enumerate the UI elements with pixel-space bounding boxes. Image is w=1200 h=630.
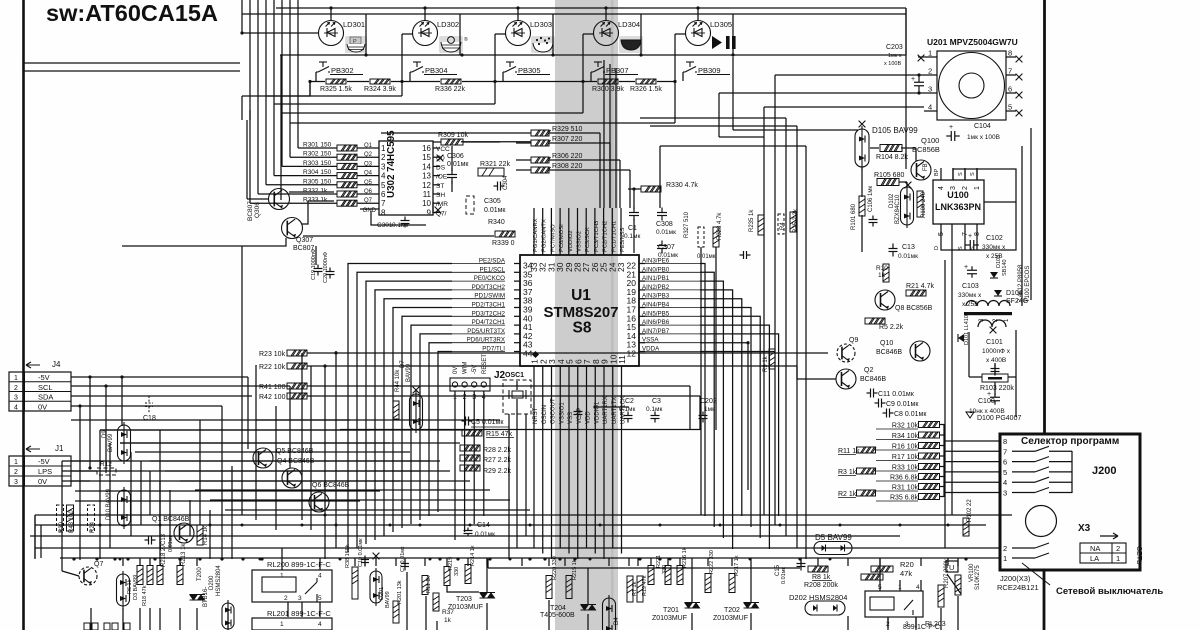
- svg-text:BAV99: BAV99: [385, 591, 391, 608]
- LED LD305: [686, 21, 711, 46]
- resistor R329 510: [531, 130, 551, 136]
- resistor R218 27: [157, 566, 163, 585]
- svg-text:C101: C101: [986, 339, 1003, 346]
- svg-text:0.01мк: 0.01мк: [697, 254, 716, 260]
- left lower mesh verticals: [99, 430, 101, 559]
- svg-text:R27 2.2k: R27 2.2k: [483, 457, 512, 464]
- wire J2 pins down: [454, 391, 456, 540]
- connector J2: [450, 378, 490, 391]
- wire center verticals below U1: [533, 430, 535, 548]
- capacitor C20 1000pF: [326, 268, 335, 279]
- svg-text:3: 3: [950, 186, 957, 190]
- svg-text:6: 6: [381, 190, 386, 199]
- svg-text:Q6: Q6: [364, 189, 373, 195]
- svg-text:330мк х: 330мк х: [958, 292, 982, 299]
- resistor R324: [370, 79, 390, 84]
- svg-text:+: +: [949, 124, 953, 131]
- svg-text:5: 5: [1003, 468, 1007, 477]
- svg-text:899-1C-F-C: 899-1C-F-C: [903, 624, 940, 630]
- svg-text:PB309: PB309: [698, 66, 721, 75]
- svg-text:R308 220: R308 220: [552, 163, 582, 170]
- svg-text:1k: 1k: [878, 272, 886, 279]
- resistor R336: [441, 79, 461, 84]
- resistor R300: [598, 79, 618, 84]
- NA LA table: [1080, 543, 1126, 563]
- svg-text:0.1мк: 0.1мк: [646, 406, 663, 413]
- svg-text:C10 0.01мк: C10 0.01мк: [358, 538, 364, 567]
- svg-text:R330 4.7k: R330 4.7k: [666, 182, 698, 189]
- svg-text:R100 240: R100 240: [921, 191, 927, 218]
- svg-text:R18 47k: R18 47k: [142, 585, 148, 606]
- resistor R307 220: [531, 140, 551, 146]
- resistor R37 1k: [433, 593, 439, 611]
- bus left vertical wires: [34, 515, 36, 559]
- svg-text:2: 2: [1116, 544, 1120, 553]
- svg-text:1: 1: [280, 573, 284, 580]
- wire bottom edge drops left: [90, 608, 92, 630]
- svg-text:R29 2.2k: R29 2.2k: [483, 468, 512, 475]
- svg-text:HSMS2804: HSMS2804: [216, 565, 222, 596]
- transformer T100 primary: [966, 301, 1010, 307]
- resistor R325: [326, 79, 346, 84]
- push button PB302: [316, 62, 330, 72]
- wire LD301 anode: [242, 32, 319, 34]
- resistor R10 1k: [883, 264, 889, 282]
- svg-text:Q2: Q2: [364, 152, 373, 158]
- resistor R28: [460, 445, 480, 451]
- resistor R105 680: [877, 179, 899, 186]
- bus top right horizontals: [775, 74, 924, 76]
- capacitor C8: [883, 409, 894, 418]
- svg-text:R208 200k: R208 200k: [804, 582, 838, 589]
- right sheet border line: [1043, 0, 1046, 434]
- svg-text:0.01мк: 0.01мк: [484, 207, 506, 214]
- svg-text:4: 4: [928, 103, 932, 112]
- svg-text:C305: C305: [484, 198, 501, 205]
- resistor R330 4.7k: [641, 186, 661, 192]
- capacitor C10: [361, 556, 369, 567]
- resistor R213 1k: [177, 566, 183, 585]
- wire U1 right pin fan: [700, 264, 705, 517]
- svg-text:Z0103MUF: Z0103MUF: [448, 604, 483, 611]
- IC U100 LNK363PN: [933, 180, 984, 224]
- svg-text:D5 BAV99: D5 BAV99: [815, 533, 852, 542]
- svg-text:R328 4.7k: R328 4.7k: [717, 212, 723, 240]
- selector box: [1000, 434, 1140, 570]
- resistor R214 1k: [465, 565, 471, 584]
- resistor R302: [337, 154, 357, 160]
- svg-text:3: 3: [14, 479, 18, 486]
- svg-text:R3 1k: R3 1k: [838, 469, 857, 476]
- svg-text:T405-600B: T405-600B: [540, 612, 575, 619]
- svg-text:SDA: SDA: [38, 393, 53, 402]
- resistor R11b 1k: [422, 576, 428, 595]
- resistor R104 8.2k: [880, 145, 902, 152]
- svg-text:R25 2.2k: R25 2.2k: [793, 208, 799, 233]
- svg-text:0.01мк: 0.01мк: [658, 252, 678, 259]
- svg-text:3: 3: [1003, 489, 1007, 498]
- svg-text:Q7: Q7: [364, 198, 373, 204]
- svg-text:T204: T204: [550, 605, 566, 612]
- capacitor C7: [401, 560, 409, 571]
- svg-text:R5 2.2k: R5 2.2k: [879, 324, 904, 331]
- svg-text:4: 4: [938, 186, 945, 190]
- svg-text:16: 16: [422, 144, 431, 153]
- svg-text:STM8S207: STM8S207: [543, 304, 618, 321]
- capacitor C13: [889, 244, 898, 257]
- svg-text:5: 5: [381, 181, 386, 190]
- LED LD301: [319, 21, 344, 46]
- scanner gray band: [555, 0, 618, 630]
- resistor R38 160k: [352, 567, 358, 599]
- svg-text:R33 10k: R33 10k: [892, 465, 919, 472]
- dual diode D201 BAV99: [373, 553, 380, 560]
- capacitor C5: [462, 417, 473, 426]
- svg-text:T203: T203: [456, 596, 472, 603]
- resistor R217 1k: [729, 574, 735, 593]
- svg-text:1мк х 100В: 1мк х 100В: [967, 134, 1000, 141]
- resistor R102 22: [963, 518, 969, 536]
- svg-text:R22 10k: R22 10k: [259, 364, 286, 371]
- connector J4: [9, 372, 71, 411]
- svg-text:23: 23: [616, 262, 626, 272]
- transistor Q7 (dashed): [79, 567, 97, 585]
- svg-text:C3: C3: [652, 398, 661, 405]
- svg-text:Q100: Q100: [921, 136, 939, 145]
- svg-text:1: 1: [381, 144, 386, 153]
- top-left vertical wire bundle: [249, 0, 251, 120]
- transistor Q2 BC846B: [836, 369, 856, 389]
- svg-text:1: 1: [14, 459, 18, 466]
- svg-text:0.01мк: 0.01мк: [898, 253, 918, 260]
- resistor R6 1k: [137, 566, 143, 585]
- svg-text:2: 2: [14, 469, 18, 476]
- svg-text:BC846B: BC846B: [876, 349, 902, 356]
- transistor Q306 BC807: [269, 189, 290, 210]
- svg-text:R35 6.8k: R35 6.8k: [890, 495, 919, 502]
- wire U201 pin2: [917, 73, 920, 76]
- svg-text:Q9: Q9: [849, 337, 858, 344]
- svg-text:U: U: [949, 563, 954, 572]
- svg-text:T200: T200: [197, 567, 203, 581]
- svg-text:S8: S8: [573, 320, 592, 337]
- svg-text:Q2: Q2: [864, 367, 873, 374]
- svg-text:3: 3: [381, 162, 386, 171]
- svg-text:LNK363PN: LNK363PN: [935, 202, 981, 212]
- resistor R304: [337, 173, 357, 179]
- transistor Q8 BC856B: [875, 290, 895, 310]
- resistor R30 (dashed): [57, 505, 64, 531]
- svg-text:C2: C2: [625, 398, 634, 405]
- svg-text:R321 22k: R321 22k: [480, 161, 510, 168]
- resistor R328 4.7k: [713, 227, 719, 247]
- resistor R301: [337, 145, 357, 151]
- capacitor C13a: [145, 536, 156, 545]
- svg-text:D: D: [934, 246, 940, 250]
- svg-text:0.01мк: 0.01мк: [447, 161, 469, 168]
- connector J1: [9, 456, 71, 486]
- svg-text:8: 8: [1008, 49, 1012, 58]
- icon under LD303 (rinse basin): [531, 36, 555, 53]
- svg-text:T202: T202: [724, 607, 740, 614]
- capacitor C307: [657, 241, 667, 254]
- svg-text:Q10: Q10: [880, 340, 893, 347]
- svg-text:1: 1: [928, 49, 932, 58]
- svg-text:4: 4: [381, 172, 386, 181]
- transistor Q10 BC846B: [910, 341, 930, 361]
- svg-text:4: 4: [318, 573, 322, 580]
- wire VSSA VDDA to caps: [700, 342, 748, 344]
- svg-text:C13: C13: [902, 244, 915, 251]
- capacitor C308: [657, 208, 667, 221]
- svg-text:Q1: Q1: [364, 143, 373, 149]
- svg-text:8: 8: [1003, 437, 1007, 446]
- arrow J1: [26, 446, 40, 452]
- svg-text:R10: R10: [876, 265, 888, 272]
- svg-text:4: 4: [1003, 478, 1007, 487]
- wire RL200 stubs: [281, 548, 283, 570]
- svg-text:J2: J2: [494, 370, 506, 381]
- svg-text:2: 2: [381, 153, 386, 162]
- svg-text:WIM: WIM: [463, 362, 469, 374]
- svg-text:J200: J200: [1092, 465, 1116, 477]
- dual diode D7 BAV99: [413, 387, 420, 394]
- svg-text:R20: R20: [900, 560, 914, 569]
- capacitor C19 1000pF: [314, 265, 323, 276]
- triac T200 BTB16: [190, 595, 206, 601]
- svg-text:0.01мк: 0.01мк: [656, 229, 676, 236]
- resistor R339 0: [495, 231, 515, 237]
- wire triac stub lines: [486, 558, 488, 593]
- svg-text:BP: BP: [934, 168, 940, 176]
- dual diode D9 BAV99: [118, 422, 131, 464]
- IC U1 STM8S207: [520, 255, 639, 366]
- wire U1 left pin fan: [348, 264, 452, 553]
- svg-text:R44 10k: R44 10k: [395, 369, 401, 392]
- svg-text:Q307: Q307: [296, 237, 313, 244]
- svg-text:Z0103MUF: Z0103MUF: [652, 615, 687, 622]
- svg-text:RESET: RESET: [482, 354, 488, 374]
- wire net under buttons: [280, 55, 282, 200]
- wire button outputs to chain: [242, 82, 310, 97]
- svg-text:D200: D200: [209, 575, 215, 590]
- svg-text:7: 7: [1008, 67, 1012, 76]
- resistor R215 1k: [566, 576, 572, 599]
- wire R309 to R307 link: [461, 141, 531, 143]
- svg-text:R4: R4: [780, 222, 786, 230]
- left lower mesh horizontals: [71, 419, 350, 421]
- svg-text:SB140: SB140: [1002, 259, 1008, 276]
- svg-text:10: 10: [422, 199, 431, 208]
- wire R329 R307 left leads: [516, 132, 531, 134]
- svg-text:9: 9: [427, 208, 432, 217]
- svg-text:C13: C13: [161, 533, 167, 545]
- resistor R15: [462, 430, 482, 436]
- svg-text:Q1 BC846B: Q1 BC846B: [152, 516, 190, 523]
- svg-text:Q306: Q306: [254, 202, 261, 218]
- wire OSC1 down: [508, 414, 510, 559]
- svg-text:х 100В: х 100В: [884, 61, 901, 67]
- svg-text:LD303: LD303: [530, 20, 552, 29]
- resistor R222 330: [705, 574, 711, 593]
- bus horizontal lower: [35, 514, 1012, 516]
- svg-text:T201: T201: [663, 607, 679, 614]
- svg-text:J4: J4: [52, 360, 61, 369]
- svg-text:R11 1k: R11 1k: [426, 576, 432, 593]
- svg-text:U100: U100: [947, 190, 969, 200]
- svg-text:Q7/: Q7/: [436, 210, 447, 217]
- capacitor C106 1mk: [869, 216, 878, 227]
- resistor R27: [460, 455, 480, 461]
- svg-text:RCE24B121: RCE24B121: [997, 583, 1039, 592]
- transistor Q9 (dashed): [837, 344, 855, 362]
- transistor Q307 BC807: [282, 218, 303, 239]
- svg-text:Q3: Q3: [364, 161, 373, 167]
- svg-text:4: 4: [318, 621, 322, 628]
- svg-text:+: +: [968, 233, 972, 240]
- bottom left cut components: [84, 623, 90, 630]
- icon under LD305 (start/pause): [712, 36, 736, 49]
- svg-text:R306 220: R306 220: [552, 153, 582, 160]
- resistor R44 10k: [393, 401, 399, 419]
- push button PB307: [591, 62, 605, 72]
- U1 pin44 diamond: [532, 351, 539, 358]
- svg-text:1мк х: 1мк х: [888, 53, 902, 59]
- svg-text:0V: 0V: [38, 477, 47, 486]
- svg-text:R326 1.5k: R326 1.5k: [630, 86, 662, 93]
- resistor R21 4.7k: [906, 290, 926, 296]
- svg-text:R42 100: R42 100: [259, 394, 286, 401]
- svg-text:DS: DS: [436, 164, 446, 171]
- wire bottom row stubs: [122, 558, 124, 566]
- svg-text:R201 13k: R201 13k: [397, 580, 403, 604]
- svg-text:BC846B: BC846B: [860, 376, 886, 383]
- svg-text:330: 330: [662, 565, 668, 574]
- resistor R14 1k: [197, 525, 203, 545]
- svg-text:R222 330: R222 330: [709, 550, 715, 574]
- transistor Q6 BC846B: [309, 492, 329, 512]
- svg-text:R16 10k: R16 10k: [892, 444, 919, 451]
- svg-text:J1: J1: [55, 444, 64, 453]
- svg-text:C11 0.01мк: C11 0.01мк: [878, 391, 915, 398]
- svg-text:R215 1k: R215 1k: [572, 559, 578, 580]
- svg-text:R336 22k: R336 22k: [435, 86, 465, 93]
- svg-text:FB: FB: [923, 163, 929, 171]
- wire PSU loop: [941, 169, 1016, 250]
- resistor R201 13k: [393, 601, 399, 623]
- wire top right cascade: [732, 57, 734, 130]
- svg-text:LD301: LD301: [343, 20, 365, 29]
- svg-text:S10K275: S10K275: [975, 565, 981, 590]
- svg-text:C103: C103: [962, 283, 979, 290]
- svg-text:C9 0.01мк: C9 0.01мк: [886, 401, 919, 408]
- capacitor C100: [990, 393, 1000, 405]
- svg-text:PB305: PB305: [518, 66, 541, 75]
- svg-text:0.01мк: 0.01мк: [781, 567, 787, 584]
- capacitor C304: [494, 182, 505, 191]
- resistor R9 1k: [769, 349, 775, 369]
- svg-text:Q7: Q7: [94, 561, 103, 568]
- svg-text:R34 10k: R34 10k: [892, 433, 919, 440]
- svg-text:R324 3.9k: R324 3.9k: [364, 86, 396, 93]
- svg-text:R43 100: R43 100: [69, 510, 75, 533]
- wire button stems: [315, 72, 317, 81]
- svg-text:2: 2: [284, 595, 288, 602]
- svg-text:PB304: PB304: [425, 66, 448, 75]
- svg-text:R101 680: R101 680: [851, 203, 857, 230]
- bus bottom row feed: [60, 557, 1000, 559]
- svg-text:Сетевой выключатель: Сетевой выключатель: [1056, 586, 1163, 597]
- svg-text:PB302: PB302: [331, 66, 354, 75]
- svg-text:-5V: -5V: [38, 373, 50, 382]
- svg-text:R218 27: R218 27: [161, 544, 167, 567]
- svg-text:0.01мк: 0.01мк: [168, 535, 174, 552]
- svg-text:S: S: [970, 172, 976, 176]
- svg-text:7: 7: [381, 199, 386, 208]
- svg-text:1: 1: [974, 186, 981, 190]
- svg-text:R103 220k: R103 220k: [980, 385, 1014, 392]
- junction dots on buses: [99, 524, 102, 527]
- resistor R340 (dashed): [466, 196, 474, 214]
- svg-text:12: 12: [422, 181, 431, 190]
- wire bottom edge drops middle: [406, 572, 408, 630]
- svg-text:5: 5: [318, 595, 322, 602]
- resistor R7 1k: [627, 576, 633, 602]
- wire ladder to J200 pins: [943, 424, 945, 497]
- svg-text:R8 1k: R8 1k: [812, 574, 831, 581]
- svg-text:R17 10k: R17 10k: [892, 454, 919, 461]
- svg-text:1: 1: [1116, 554, 1120, 563]
- svg-text:X3: X3: [1078, 523, 1091, 534]
- svg-text:R329 510: R329 510: [552, 126, 582, 133]
- capacitor C6 on OSCOUT: [574, 409, 583, 418]
- relay RL203 899-1C-F-C: [865, 591, 923, 617]
- resistor R306 220: [531, 157, 551, 163]
- capacitor C15: [797, 560, 806, 571]
- svg-text:R235 1k: R235 1k: [749, 209, 755, 232]
- capacitor C9: [875, 399, 886, 408]
- svg-text:R28 2.2k: R28 2.2k: [483, 447, 512, 454]
- svg-text:C102: C102: [986, 235, 1003, 242]
- wire mains: [1043, 570, 1046, 630]
- left sheet border line: [22, 0, 25, 630]
- svg-text:R340: R340: [488, 219, 505, 226]
- svg-text:1: 1: [14, 375, 18, 382]
- svg-text:Q4: Q4: [364, 171, 373, 177]
- svg-text:0V: 0V: [38, 402, 47, 411]
- diode D101 LL4106: [958, 334, 964, 342]
- wire top-left entry: [23, 62, 240, 64]
- wire fan to left bundle: [241, 96, 243, 120]
- resistor R221 330: [665, 566, 671, 585]
- push button PB309: [683, 62, 697, 72]
- resistor R12 (dashed): [97, 468, 116, 475]
- svg-text:13: 13: [422, 172, 431, 181]
- svg-text:+: +: [911, 76, 915, 83]
- svg-text:SH: SH: [436, 192, 445, 199]
- svg-text:R327 510: R327 510: [684, 211, 690, 238]
- capacitor C103: [967, 266, 977, 278]
- transistor Q1 BC846B: [174, 523, 194, 543]
- svg-text:3: 3: [14, 395, 18, 402]
- svg-text:R14 1k: R14 1k: [203, 525, 209, 545]
- svg-text:C104: C104: [974, 123, 991, 130]
- wire left mesh extensions: [100, 429, 470, 431]
- wire left verticals mesh: [247, 377, 249, 449]
- dual diode D3 BAV99: [117, 571, 130, 609]
- svg-text:0.1мк: 0.1мк: [624, 233, 641, 240]
- svg-text:-5V: -5V: [38, 457, 50, 466]
